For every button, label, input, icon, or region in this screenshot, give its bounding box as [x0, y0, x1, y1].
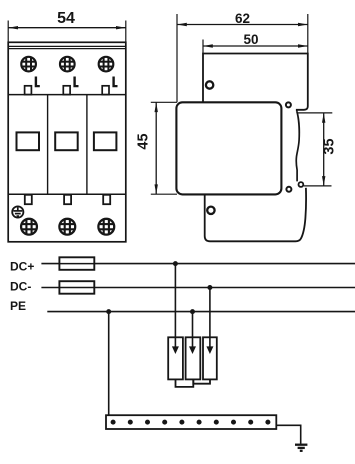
- bottom terminal slot 2: [64, 195, 71, 204]
- svg-text:62: 62: [235, 11, 250, 26]
- svg-text:PE: PE: [10, 299, 26, 313]
- svg-text:50: 50: [243, 32, 258, 47]
- junction DC-: [207, 285, 212, 290]
- top terminal screw 1: [21, 57, 36, 72]
- wire drop DC+ to arrester 1: [174, 264, 176, 348]
- wire PE: [47, 311, 355, 313]
- surge arrester box 2: [186, 337, 201, 379]
- label L pole 3: [112, 77, 117, 88]
- arrow arrester 1: [172, 346, 179, 354]
- top terminal screw 2: [60, 57, 75, 72]
- front section line lower: [8, 193, 126, 195]
- surge arrester box 1: [168, 337, 183, 379]
- junction DC+: [173, 261, 178, 266]
- bottom terminal screw 1: [21, 219, 37, 235]
- dimension 50: [203, 32, 308, 54]
- side head hole: [206, 81, 213, 88]
- svg-text:54: 54: [57, 10, 75, 27]
- bottom terminal slot 3: [103, 195, 110, 204]
- wire busbar to earth: [276, 425, 300, 444]
- dimension 45: [135, 102, 177, 194]
- dimension 35: [297, 113, 337, 186]
- wire drop DC- to arrester 3: [209, 288, 211, 349]
- module divider 2: [86, 95, 88, 195]
- PE busbar: [106, 415, 276, 429]
- arrow arrester 2: [189, 346, 196, 354]
- front top rim lines: [8, 46, 126, 48]
- side body ring top: [286, 102, 291, 107]
- wire drop PE to arrester 2: [192, 312, 194, 348]
- earth ground symbol: [295, 445, 307, 451]
- bottom terminal screw 2: [59, 219, 75, 235]
- bottom terminal slot 1: [25, 195, 32, 204]
- indicator window 2: [55, 132, 77, 150]
- side view lower flange: [205, 188, 306, 242]
- bottom terminal screw 3: [98, 219, 114, 235]
- fuse F2 on DC-: [59, 281, 94, 294]
- top terminal slot 3: [102, 86, 109, 95]
- PE terminal symbol: [12, 206, 23, 217]
- bracket arrester 2-3: [193, 379, 210, 383]
- label L pole 1: [35, 77, 40, 88]
- svg-text:DC+: DC+: [10, 259, 34, 273]
- indicator window 3: [94, 132, 117, 150]
- junction PE middle: [190, 309, 195, 314]
- top terminal screw 3: [99, 57, 114, 72]
- arrow arrester 3: [206, 346, 213, 354]
- DIN clip loop: [299, 182, 304, 187]
- wire DC+: [41, 263, 355, 265]
- side view head: [203, 54, 308, 112]
- bracket arrester 1-2: [176, 379, 194, 387]
- side view body: [176, 102, 281, 194]
- wire PE drop to busbar: [108, 312, 110, 416]
- junction PE left: [106, 309, 111, 314]
- fuse F1 on DC+: [59, 257, 94, 270]
- top terminal slot 1: [25, 86, 32, 95]
- front view outline: [8, 42, 126, 242]
- svg-text:DC-: DC-: [10, 279, 31, 293]
- top terminal slot 2: [63, 86, 70, 95]
- front section line upper: [8, 94, 126, 96]
- label L pole 2: [73, 77, 78, 88]
- busbar holes: [111, 420, 271, 425]
- side body ring bottom: [286, 187, 291, 192]
- module divider 1: [47, 95, 49, 195]
- side flange hole: [207, 207, 214, 214]
- dimension 62: [177, 11, 308, 103]
- DIN clip spring: [296, 111, 299, 181]
- dimension 54: [8, 10, 126, 42]
- wire DC-: [41, 287, 355, 289]
- svg-text:45: 45: [135, 133, 151, 149]
- indicator window 1: [17, 132, 40, 150]
- surge arrester box 3: [203, 337, 217, 379]
